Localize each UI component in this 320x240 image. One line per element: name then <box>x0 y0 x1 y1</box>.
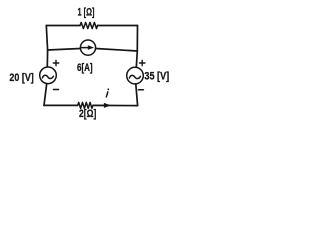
wire left vertical lower <box>44 84 47 106</box>
svg-text:20 [V]: 20 [V] <box>9 72 34 84</box>
label i <box>106 88 109 97</box>
current source U1 circle <box>80 40 95 55</box>
voltage source V2 sine <box>129 75 140 78</box>
svg-text:1 [Ω]: 1 [Ω] <box>78 6 95 18</box>
wire left vertical upper <box>46 26 47 68</box>
wire bottom-right segment <box>93 104 138 106</box>
current arrow i on bottom wire <box>96 104 106 106</box>
voltage source V2 circle <box>127 67 144 84</box>
plus sign V1 <box>53 60 58 65</box>
wire bottom-left segment <box>44 104 78 106</box>
wire top-left segment <box>46 25 80 27</box>
minus sign V2 <box>138 89 143 91</box>
current source arrow <box>82 47 90 49</box>
resistor R2 <box>78 102 93 108</box>
wire middle-right segment <box>96 49 138 52</box>
wire right vertical upper <box>136 26 137 68</box>
plus sign V2 <box>140 60 145 65</box>
wire right vertical lower <box>136 84 138 106</box>
wire middle-left segment <box>48 49 81 51</box>
voltage source V1 circle <box>40 67 57 84</box>
svg-text:6[A]: 6[A] <box>77 62 93 74</box>
wire top-right segment <box>98 25 138 27</box>
svg-text:2[Ω]: 2[Ω] <box>79 108 97 120</box>
voltage source V1 sine <box>42 75 53 78</box>
svg-text:35 [V]: 35 [V] <box>144 70 169 82</box>
resistor R1 <box>80 22 98 28</box>
minus sign V1 <box>54 89 59 91</box>
